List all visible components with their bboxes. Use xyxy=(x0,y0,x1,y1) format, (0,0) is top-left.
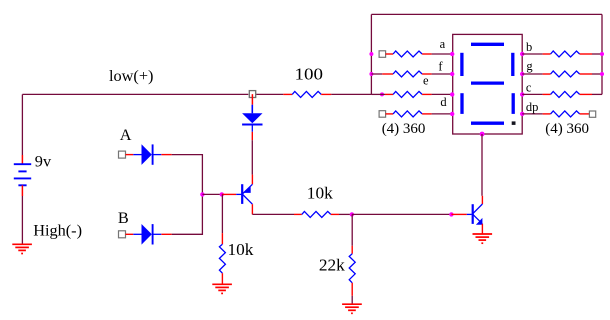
pin common dot xyxy=(480,132,485,137)
junction dot row b bus xyxy=(600,52,604,56)
wire D3 cathode to Q1 emitter xyxy=(251,132,253,185)
svg-text:(4) 360: (4) 360 xyxy=(545,121,589,137)
junction dot node AB xyxy=(200,192,204,196)
wire row f to pin xyxy=(432,73,453,75)
label a xyxy=(440,37,446,51)
label (4) 360 left xyxy=(382,121,426,137)
svg-text:100: 100 xyxy=(295,65,324,84)
svg-text:d: d xyxy=(440,95,447,109)
7-segment display U1 body xyxy=(453,34,523,134)
svg-text:dp: dp xyxy=(526,100,539,114)
wire Q1 collector down xyxy=(251,204,253,214)
transistor Q2 NPN xyxy=(473,204,483,225)
wire display common to Q2 collector xyxy=(481,134,483,204)
wire Q2 emitter to ground xyxy=(481,224,483,234)
label A xyxy=(120,125,132,144)
wire pin b to resistor xyxy=(522,53,550,55)
resistor 360 row c xyxy=(551,91,592,97)
wire bus to row f xyxy=(371,73,393,75)
wire top rail xyxy=(22,93,248,95)
wire pin dp to resistor xyxy=(522,113,550,115)
svg-text:10k: 10k xyxy=(307,183,333,202)
wire pin g to resistor xyxy=(522,73,550,75)
segment e bar xyxy=(460,93,463,114)
resistor 360 row b xyxy=(551,51,592,57)
port square row a xyxy=(379,51,386,58)
resistor R1 100 xyxy=(292,91,331,97)
port square input B xyxy=(119,231,126,238)
resistor R3 360 row f xyxy=(393,71,432,77)
resistor R7 10k vertical xyxy=(219,244,225,284)
segment dp xyxy=(512,121,516,125)
wire battery- to ground xyxy=(21,196,23,244)
wire AB junction to base node xyxy=(202,193,221,195)
pin e dot xyxy=(450,92,454,96)
diode D1 input A xyxy=(133,144,161,165)
segment f bar xyxy=(460,53,463,76)
wire base node down to R7 xyxy=(221,194,223,244)
label 9v xyxy=(35,151,52,170)
resistor R2 360 row a xyxy=(386,51,432,57)
segment c bar xyxy=(512,93,515,114)
label f xyxy=(438,59,443,73)
svg-text:High(-): High(-) xyxy=(33,221,82,240)
label dp xyxy=(526,100,539,114)
svg-text:A: A xyxy=(120,125,132,144)
wire R1 to left bus xyxy=(331,93,371,95)
junction dot Q2 base node xyxy=(449,212,453,216)
svg-text:22k: 22k xyxy=(319,255,345,274)
resistor R4 360 row e xyxy=(393,91,432,97)
wire row c to right bus xyxy=(592,93,602,95)
resistor 360 row g xyxy=(551,71,592,77)
wire D1 to junction xyxy=(161,155,202,195)
segment d xyxy=(471,122,504,125)
wire node to Q2 base xyxy=(451,213,471,215)
wire R6 to 22k node xyxy=(339,213,352,215)
label 100 xyxy=(295,65,324,84)
label low(+) xyxy=(109,66,153,85)
svg-text:9v: 9v xyxy=(35,151,52,170)
wire D2 to junction xyxy=(161,194,202,234)
wire A port to diode xyxy=(126,154,134,156)
label High(-) xyxy=(33,221,82,240)
svg-text:B: B xyxy=(118,208,129,227)
pin d dot xyxy=(450,112,454,116)
resistor R5 360 row d xyxy=(386,111,432,117)
label e xyxy=(423,73,429,87)
resistor R6 10k xyxy=(302,211,339,217)
svg-text:g: g xyxy=(526,59,533,73)
resistor 360 row dp xyxy=(551,111,593,117)
junction dot base node xyxy=(220,192,224,196)
wire row a to pin xyxy=(432,53,453,55)
segment g xyxy=(471,81,504,84)
junction dot row a xyxy=(369,52,373,56)
wire base node to Q1 base xyxy=(222,193,242,195)
pin b dot xyxy=(520,52,524,56)
label g xyxy=(526,59,533,73)
wire pin c to resistor xyxy=(522,93,550,95)
svg-text:e: e xyxy=(423,73,429,87)
junction dot row f xyxy=(369,72,373,76)
label c xyxy=(526,80,532,94)
svg-text:c: c xyxy=(526,80,532,94)
junction dot row e xyxy=(380,92,384,96)
diode D3 xyxy=(242,105,262,132)
port square D3 tap xyxy=(249,91,255,98)
svg-text:10k: 10k xyxy=(228,240,254,259)
wire row e to pin xyxy=(432,93,453,95)
ground Q2 xyxy=(473,234,493,243)
wire tap to R1 xyxy=(256,93,292,95)
battery 9v xyxy=(14,155,31,196)
wire row b to right bus xyxy=(592,53,602,55)
junction dot row g bus xyxy=(600,72,604,76)
transistor Q1 PNP xyxy=(242,184,252,204)
label 10k horizontal xyxy=(307,183,333,202)
svg-text:b: b xyxy=(526,40,532,54)
segment a xyxy=(471,43,504,46)
ground battery xyxy=(12,244,32,253)
left vertical bus xyxy=(370,14,372,94)
wire 22k node to Q2 node xyxy=(352,213,452,215)
svg-text:a: a xyxy=(440,37,446,51)
junction dot 22k node xyxy=(350,212,354,216)
wire row d to pin xyxy=(432,113,453,115)
diode D2 input B xyxy=(133,224,161,245)
wire Q1 collector to R6 xyxy=(252,213,301,215)
label B xyxy=(118,208,129,227)
pin dp dot xyxy=(520,112,524,116)
label 22k xyxy=(319,255,345,274)
resistor R8 22k xyxy=(349,254,355,304)
wire battery+ to top rail xyxy=(21,94,23,155)
segment b bar xyxy=(511,53,514,76)
label d xyxy=(440,95,447,109)
label (4) 360 right xyxy=(545,121,589,137)
ground R7 xyxy=(212,284,232,293)
right vertical bus xyxy=(601,14,603,94)
wire tap square to D3 xyxy=(251,94,253,105)
wire row g to right bus xyxy=(592,73,602,75)
pin g dot xyxy=(520,72,524,76)
svg-text:low(+): low(+) xyxy=(109,66,153,85)
top horizontal bus wire xyxy=(371,13,602,15)
label 10k vertical xyxy=(228,240,254,259)
wire B port to diode xyxy=(126,233,134,235)
wire 22k node down xyxy=(351,214,353,253)
pin a dot xyxy=(450,52,454,56)
pin f dot xyxy=(450,72,454,76)
pin c dot xyxy=(520,92,524,96)
label b xyxy=(526,40,532,54)
wire bus to row e xyxy=(371,93,393,95)
port square input A xyxy=(119,151,126,158)
port square row d xyxy=(379,111,386,118)
ground R8 xyxy=(342,304,362,313)
svg-text:(4) 360: (4) 360 xyxy=(382,121,426,137)
port square row dp xyxy=(589,111,595,117)
